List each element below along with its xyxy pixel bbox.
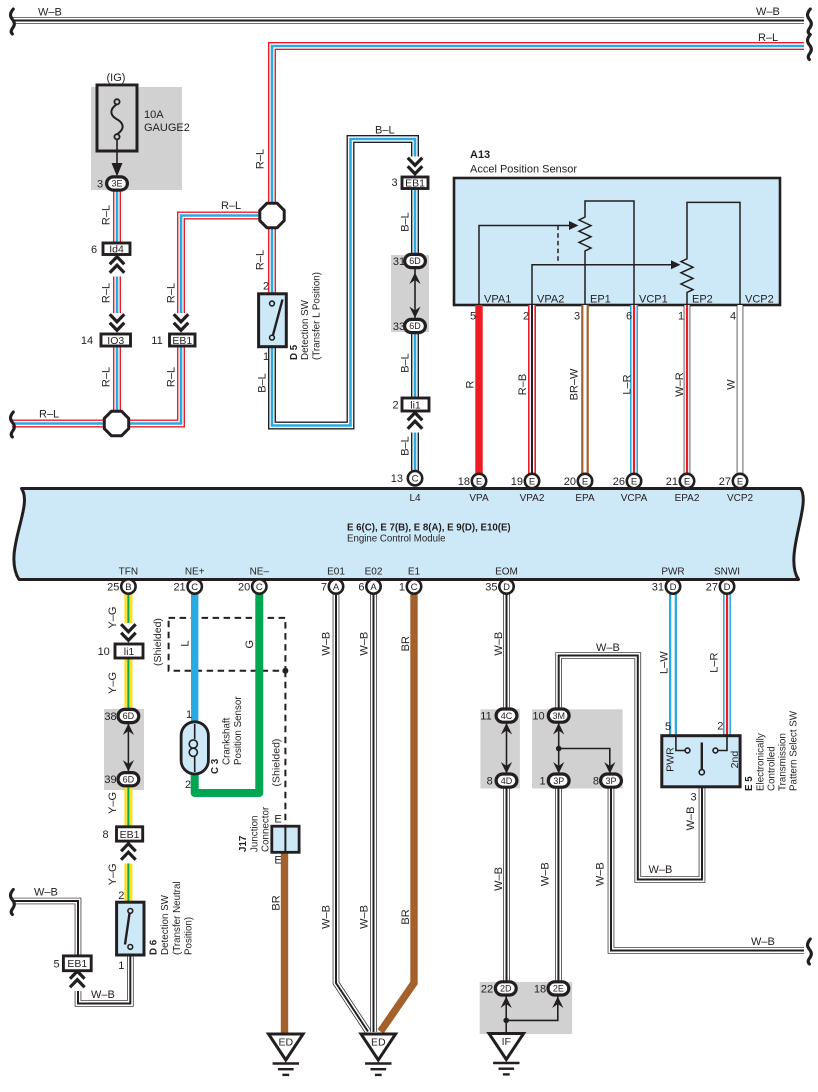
svg-text:19: 19 (511, 476, 523, 488)
connector li1-10 (115, 644, 143, 658)
connector EB1-5 (63, 956, 91, 971)
wire R-L IO3 to Id4 (113, 255, 121, 335)
chevron below EB1-5 (69, 969, 86, 991)
svg-text:2: 2 (263, 281, 269, 293)
wire L NE+ to C3 pin 1 (191, 594, 198, 723)
svg-text:E02: E02 (365, 567, 383, 578)
svg-text:1: 1 (678, 311, 684, 323)
svg-text:11: 11 (480, 711, 491, 723)
ECM pin 21 E (680, 474, 694, 488)
shield dashed box crankshaft sensor (169, 618, 286, 671)
svg-text:R–L: R–L (221, 200, 241, 212)
label L-R (622, 374, 634, 394)
connector 4D (496, 774, 517, 787)
svg-text:R–L: R–L (39, 409, 59, 421)
chevron below li1-2 (407, 411, 424, 433)
svg-text:Controlled: Controlled (767, 746, 778, 791)
svg-text:8: 8 (103, 829, 109, 841)
svg-text:L4: L4 (409, 493, 421, 504)
svg-text:B–L: B–L (400, 353, 412, 373)
svg-text:W–B: W–B (91, 989, 115, 1001)
svg-text:IO3: IO3 (107, 335, 124, 347)
link 3M to 3P-1 (558, 722, 560, 774)
label Y-G 3 (107, 792, 119, 814)
svg-text:8: 8 (593, 776, 599, 788)
svg-text:VPA2: VPA2 (520, 493, 545, 504)
svg-text:B–L: B–L (400, 436, 412, 456)
label W-B E01 upper (321, 632, 333, 656)
svg-text:6D: 6D (123, 774, 135, 784)
arrow up to 6D-38 (123, 724, 134, 736)
wire Y-G EB1-8 to D6 (124, 841, 132, 903)
label W-B E02 upper (359, 632, 371, 656)
svg-text:R–L: R–L (255, 250, 267, 270)
label Y-G 1 (107, 607, 119, 629)
gray background connector 3M/3P (532, 709, 623, 788)
svg-text:E: E (582, 476, 588, 487)
label R-L below IO3 (101, 367, 113, 387)
svg-text:W–B: W–B (756, 6, 780, 18)
svg-text:A: A (333, 582, 340, 593)
ECM pin 21 C (NE+) (188, 579, 202, 593)
connector 6D-31 (405, 254, 426, 267)
svg-text:EP2: EP2 (692, 294, 713, 306)
svg-text:2: 2 (717, 721, 723, 733)
svg-text:26: 26 (613, 476, 625, 488)
svg-text:2: 2 (118, 890, 124, 902)
connector 6D-38 (118, 709, 139, 722)
svg-text:3: 3 (391, 177, 397, 189)
switch E5 pattern select (662, 736, 740, 787)
wire R-L below EB1-11 to octagon2 (130, 346, 182, 424)
svg-text:Transmission: Transmission (778, 733, 789, 791)
svg-text:C: C (411, 582, 418, 593)
A13 dashed link VPA1-VPA2 (557, 226, 559, 265)
svg-text:8: 8 (487, 776, 493, 788)
svg-text:E1: E1 (408, 567, 421, 578)
ground IF (489, 1034, 524, 1060)
sensor A13 box (454, 178, 780, 305)
svg-text:1: 1 (186, 709, 192, 721)
svg-text:W–B: W–B (321, 905, 333, 929)
svg-text:2: 2 (393, 400, 399, 412)
label R-L vertical upper (255, 149, 267, 169)
svg-text:E: E (684, 476, 690, 487)
svg-text:Id4: Id4 (109, 244, 124, 256)
label L (179, 640, 191, 646)
svg-text:Crankshaft: Crankshaft (222, 717, 233, 765)
label L-R SNWI (708, 653, 720, 673)
continuation symbol R-L left (11, 412, 15, 437)
svg-text:VPA2: VPA2 (537, 294, 564, 306)
ECM pin 27 D (SNWI) (720, 579, 734, 593)
svg-text:Y–G: Y–G (107, 792, 119, 814)
link 2D to IF ground (505, 995, 507, 1034)
arrow up to 4C (501, 723, 512, 735)
svg-text:TFN: TFN (119, 567, 138, 578)
label W-B E01 lower (321, 905, 333, 929)
svg-text:Detection SW: Detection SW (300, 299, 311, 360)
arrowhead wiper potentiometer 2 (671, 260, 681, 269)
svg-text:VPA1: VPA1 (484, 294, 511, 306)
svg-text:4D: 4D (501, 776, 513, 786)
svg-text:2nd: 2nd (729, 751, 741, 769)
label R-B (517, 374, 529, 395)
wire W-B EOM to 4C (503, 594, 510, 710)
svg-text:W–B: W–B (596, 642, 620, 654)
gray background connector 4C/4D (480, 709, 520, 788)
ground ED (E01/E02/E1) (361, 1034, 396, 1060)
connector 6D-39 (118, 773, 139, 786)
svg-text:W–B: W–B (38, 7, 62, 19)
svg-text:R–L: R–L (255, 149, 267, 169)
svg-text:W–B: W–B (751, 936, 775, 948)
wire BR-W EP1 (581, 305, 589, 474)
svg-text:G: G (244, 640, 256, 649)
connector li1-2 (402, 398, 429, 411)
svg-text:Pattern Select SW: Pattern Select SW (789, 710, 800, 791)
svg-text:L–R: L–R (622, 374, 634, 394)
svg-text:10: 10 (98, 646, 110, 658)
svg-text:13: 13 (391, 473, 403, 485)
label W-B EOM upper (493, 632, 505, 656)
connector EB1-3 (402, 177, 428, 189)
label PWR in E5 (665, 747, 677, 772)
label Y-G 2 (107, 672, 119, 694)
connector EB1-11 (170, 334, 196, 346)
svg-text:6: 6 (91, 244, 97, 256)
svg-text:18: 18 (534, 984, 546, 996)
svg-text:(Transfer Neutral: (Transfer Neutral (172, 881, 183, 955)
fuse GAUGE2 box (97, 85, 137, 151)
svg-text:5: 5 (53, 959, 59, 971)
svg-text:W–B: W–B (493, 632, 505, 656)
svg-text:PWR: PWR (665, 747, 677, 772)
svg-text:E 6(C), E 7(B), E 8(A), E 9(D): E 6(C), E 7(B), E 8(A), E 9(D), E10(E) (347, 523, 511, 534)
E5 contact 2nd lead (718, 736, 727, 751)
svg-text:EPA: EPA (575, 493, 595, 504)
ECM pin 7 A (E01) (329, 579, 343, 593)
svg-text:(IG): (IG) (107, 72, 126, 84)
svg-text:R–L: R–L (101, 367, 113, 387)
wire W-B EB1-5 to D6 pin 1 (78, 955, 130, 1004)
svg-text:10A: 10A (144, 109, 164, 121)
svg-text:Connector: Connector (261, 806, 272, 852)
link 4C to 4D (506, 722, 508, 774)
wire L-R VCP1 (630, 305, 638, 474)
svg-text:BR: BR (400, 909, 412, 924)
continuation symbol W-B bottom right (808, 939, 812, 964)
svg-text:ED: ED (371, 1037, 386, 1049)
svg-text:W: W (726, 379, 738, 390)
svg-text:EB1: EB1 (405, 178, 425, 190)
svg-text:R: R (465, 380, 477, 388)
wire W-B 3M to E5 pin 3 (559, 656, 702, 880)
wire B-L 6D-33 to li1-2 (411, 333, 419, 399)
svg-text:Y–G: Y–G (107, 672, 119, 694)
svg-text:2: 2 (185, 779, 191, 791)
svg-text:VCP1: VCP1 (639, 294, 668, 306)
svg-text:3P: 3P (553, 776, 564, 786)
wire W VCP2 (737, 305, 744, 474)
svg-text:1: 1 (263, 351, 269, 363)
svg-text:EPA2: EPA2 (675, 493, 700, 504)
label W-B EOM lower (493, 867, 505, 891)
wire R-B VPA2 (528, 305, 536, 474)
potentiometer 2 (EP2/VCP2) (681, 202, 740, 305)
ECM pin 25 B (TFN) (121, 579, 135, 593)
label R-L between Id4 IO3 (101, 283, 113, 303)
wire Y-G 6D-39 to EB1-8 (124, 786, 132, 827)
svg-text:C: C (191, 582, 198, 593)
ECM pin 19 E (525, 474, 539, 488)
E5 contact PWR lead (676, 736, 685, 751)
connector IO3 (101, 334, 131, 346)
svg-text:C: C (412, 474, 419, 485)
svg-text:D 5: D 5 (289, 344, 300, 360)
connector 6D-33 (405, 319, 426, 332)
svg-text:GAUGE2: GAUGE2 (144, 122, 190, 134)
label BR E1 upper (400, 636, 412, 651)
svg-text:38: 38 (104, 711, 116, 723)
label R-L below EB1-11 (166, 367, 178, 387)
svg-text:EOM: EOM (495, 567, 518, 578)
link 6D-38 to 6D-39 (127, 722, 129, 773)
continuation symbol W-B top right (808, 9, 812, 34)
svg-text:2E: 2E (553, 984, 564, 994)
label W-B 3P-8 (594, 862, 606, 886)
svg-text:BR: BR (270, 895, 282, 910)
svg-text:3M: 3M (552, 711, 565, 721)
wire R-L Id4 to 3E (113, 190, 121, 243)
wire W-R EP2 (684, 305, 691, 474)
shield drain dashed line to J17 (284, 671, 286, 826)
svg-text:2D: 2D (500, 984, 512, 994)
arrow up to 6D-31 (409, 273, 420, 285)
svg-text:39: 39 (104, 774, 116, 786)
fuse lead wire (116, 140, 118, 166)
svg-text:Y–G: Y–G (107, 863, 119, 885)
connector Id4 (103, 243, 130, 255)
wire B-L EB1-3 to 6D-31 (411, 189, 419, 255)
wire BR E1 to ground (381, 594, 415, 1032)
svg-text:21: 21 (666, 476, 678, 488)
svg-text:Y–G: Y–G (107, 607, 119, 629)
svg-text:4C: 4C (501, 711, 513, 721)
arrow down to 3P-8 (604, 762, 615, 774)
svg-text:31: 31 (652, 581, 664, 593)
label D5 Detection SW (Transfer L Position) (289, 344, 300, 360)
potentiometer 1 (EP1/VCP1) (579, 201, 634, 305)
label 2nd in E5 (729, 751, 741, 769)
svg-text:D: D (724, 582, 731, 593)
arrowhead fuse lead (112, 163, 123, 177)
arrow down to 3P-1 (553, 762, 564, 774)
svg-text:W–B: W–B (359, 632, 371, 656)
label W-B E5 pin3 (685, 806, 697, 830)
fuse element (111, 104, 122, 134)
svg-text:3: 3 (690, 792, 696, 804)
chevron above EB1-3 (407, 157, 424, 179)
label W-R (674, 372, 686, 397)
wire B-L from D5 to EB1-3 (272, 139, 415, 426)
label BR E1 lower (400, 909, 412, 924)
junction octagon 1 (260, 203, 284, 227)
switch D6 Detection SW Transfer Neutral Position (117, 902, 144, 955)
wire Y-G TFN to li1-10 (124, 594, 132, 645)
wire R-L octagon1 to EB1-11 column (181, 216, 260, 335)
ECM pin 13 C (408, 471, 422, 485)
A13 wire VPA2 to wiper of potentiometer 2 (532, 265, 677, 305)
svg-text:7: 7 (321, 581, 327, 593)
svg-text:PWR: PWR (661, 567, 684, 578)
continuation symbol W-B top left (11, 9, 15, 34)
svg-text:14: 14 (81, 335, 93, 347)
svg-text:20: 20 (564, 476, 576, 488)
gray background connector 2D/2E (480, 982, 572, 1034)
svg-text:E: E (274, 855, 281, 867)
svg-text:W–B: W–B (493, 867, 505, 891)
link 6D-31 to 6D-33 (414, 268, 416, 320)
label R (465, 380, 477, 388)
svg-text:IF: IF (502, 1036, 511, 1048)
coil symbol C3 (194, 724, 196, 739)
svg-text:5: 5 (470, 311, 476, 323)
svg-text:1: 1 (399, 581, 405, 593)
svg-text:NE+: NE+ (185, 567, 205, 578)
svg-text:Junction: Junction (250, 816, 261, 853)
label (Shielded) upper (152, 618, 164, 666)
label B-L below D5 (257, 373, 269, 393)
label B-L below EB1-3 (400, 212, 412, 232)
continuation symbol R-L top right (808, 35, 812, 60)
svg-text:B–L: B–L (400, 212, 412, 232)
svg-text:EB1: EB1 (120, 829, 140, 841)
wire W-B left edge to EB1-5 (13, 901, 78, 956)
connector EB1-8 (117, 827, 143, 841)
ECM pin 1 C (E1) (407, 579, 421, 593)
connector 2D (495, 982, 516, 995)
label E5 Electronically Controlled Transmission Pattern Select SW (744, 776, 755, 791)
svg-text:3E: 3E (111, 179, 122, 189)
junction dot shield drain (282, 668, 288, 674)
svg-text:35: 35 (485, 581, 497, 593)
svg-text:li1: li1 (410, 399, 421, 411)
svg-text:E: E (476, 476, 482, 487)
gray background connector 6D pair middle (391, 255, 429, 332)
svg-text:D: D (670, 582, 677, 593)
svg-text:(Shielded): (Shielded) (271, 739, 283, 787)
svg-text:B: B (125, 582, 131, 593)
ECM pin 20 E (578, 474, 592, 488)
wire R-L octagon2 up to IO3 (113, 346, 121, 411)
connector 3P-1 (548, 774, 569, 787)
svg-text:EB1: EB1 (172, 335, 192, 347)
chevron above EB1-11 (173, 313, 190, 335)
label BR J17 (270, 895, 282, 910)
wire L-R SNWI to E5 pin 2 (723, 594, 731, 737)
ECM pin 18 E (472, 474, 486, 488)
svg-text:SNWI: SNWI (714, 567, 740, 578)
wire W-B E02 to ground (370, 594, 377, 1032)
branch 2E to IF ground (506, 995, 558, 1021)
svg-text:6: 6 (358, 581, 364, 593)
label R-L above D5 (255, 250, 267, 270)
junction octagon 2 (104, 411, 128, 435)
svg-text:L: L (179, 640, 191, 646)
A13 wire VPA1 to wiper of potentiometer 1 (479, 226, 575, 306)
ECM pin 27 E (733, 474, 747, 488)
wire R-L main bus (272, 46, 804, 203)
svg-text:(Transfer L Position): (Transfer L Position) (312, 272, 323, 360)
svg-text:E01: E01 (327, 567, 345, 578)
svg-text:E: E (274, 814, 281, 826)
svg-text:BR: BR (400, 636, 412, 651)
svg-text:W–B: W–B (540, 862, 552, 886)
svg-text:L–W: L–W (659, 651, 671, 674)
svg-text:22: 22 (481, 984, 493, 996)
continuation symbol W-B bottom left (11, 890, 15, 915)
svg-text:1: 1 (539, 776, 545, 788)
label R-L below 3E (101, 205, 113, 225)
svg-text:25: 25 (107, 581, 119, 593)
svg-text:VCP2: VCP2 (727, 493, 754, 504)
wire W-B 3P-1 to 2E (555, 788, 562, 983)
svg-text:1: 1 (118, 960, 124, 972)
ECM pin 31 D (PWR) (666, 579, 680, 593)
junction dot 3M branch (556, 746, 562, 752)
svg-text:20: 20 (238, 581, 250, 593)
arrow down to 6D-33 (409, 307, 420, 319)
svg-text:10: 10 (532, 711, 544, 723)
connector 4C (496, 709, 517, 722)
arrow up to 3M (553, 723, 564, 735)
chevron above li1-10 (120, 623, 137, 645)
wire W-B top bus (13, 17, 804, 24)
svg-text:27: 27 (706, 581, 718, 593)
label B-L above pin 13 (400, 436, 412, 456)
svg-text:R–L: R–L (101, 283, 113, 303)
svg-text:C 3: C 3 (210, 758, 221, 774)
svg-text:21: 21 (173, 581, 185, 593)
svg-text:EB1: EB1 (67, 958, 87, 970)
svg-text:Position): Position) (184, 917, 195, 955)
wire G NE- to C3 pin 2 (195, 594, 260, 794)
label C3 Crankshaft Position Sensor (210, 758, 221, 774)
ECM pin 26 E (627, 474, 641, 488)
svg-text:R–L: R–L (758, 32, 778, 44)
wire W-B 4D to 2D (503, 788, 510, 983)
E5 switch blade (701, 743, 703, 770)
svg-text:31: 31 (393, 256, 405, 268)
svg-text:6: 6 (626, 311, 632, 323)
label B-L above li1-2 (400, 353, 412, 373)
label W (726, 379, 738, 390)
wire R-L octagon2 to left edge (12, 420, 104, 428)
arrow up to 2D (501, 997, 512, 1009)
wire BR J17 to ground ED (281, 852, 288, 1034)
label D6 Detection SW (Transfer Neutral Position) (149, 939, 160, 955)
svg-text:B–L: B–L (375, 125, 395, 137)
gray background connector 6D pair left (104, 709, 144, 790)
connector 3M (548, 709, 569, 722)
svg-text:R–L: R–L (166, 283, 178, 303)
ground ED (J17) (269, 1034, 304, 1060)
svg-text:W–B: W–B (594, 862, 606, 886)
engine control module band E6-E10 (14, 489, 803, 580)
svg-text:VCP2: VCP2 (745, 294, 774, 306)
arrow up to 2E (552, 997, 563, 1009)
